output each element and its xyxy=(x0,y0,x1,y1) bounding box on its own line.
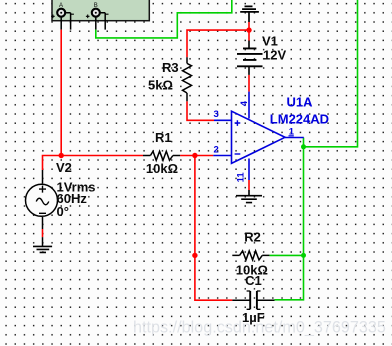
svg-text:1µF: 1µF xyxy=(242,310,265,325)
op-amp minus input mark xyxy=(235,153,241,155)
ground top (inverted, above V1) xyxy=(240,6,259,22)
op-amp plus input mark xyxy=(235,120,241,126)
scope terminal A xyxy=(51,9,74,30)
op-amp pin4 stub xyxy=(248,92,250,119)
svg-text:5kΩ: 5kΩ xyxy=(148,78,173,93)
wire feedback node down to C1 left (red) xyxy=(195,156,232,301)
svg-text:11: 11 xyxy=(236,172,247,183)
svg-text:C1: C1 xyxy=(245,273,262,288)
wire output branch to top right (green) xyxy=(304,0,358,147)
wire op-amp output down to C1 right (green) xyxy=(275,138,304,300)
ground under op-amp xyxy=(236,190,262,203)
oscilloscope XSC1 box xyxy=(52,0,149,21)
wire R3 top to V1 rail (red) xyxy=(187,30,249,57)
svg-text:12V: 12V xyxy=(263,48,286,63)
capacitor C1 xyxy=(232,291,274,309)
svg-text:R2: R2 xyxy=(244,230,261,245)
wire V1 bottom to op-amp pin4 (red) xyxy=(248,75,250,92)
wire scope B loop (green) xyxy=(96,0,232,38)
svg-text:2: 2 xyxy=(214,145,219,156)
wire R1 to op-amp inverting input (red) xyxy=(180,155,213,157)
AC source V2 xyxy=(26,170,58,246)
wire V2 top to R1 (red) xyxy=(43,156,144,171)
svg-text:LM224AD: LM224AD xyxy=(270,111,329,126)
node junction R2 left xyxy=(192,253,197,258)
svg-text:V2: V2 xyxy=(56,160,72,175)
svg-text:4: 4 xyxy=(239,100,250,106)
svg-text:0°: 0° xyxy=(57,204,69,219)
svg-text:R3: R3 xyxy=(162,60,179,75)
node junction V1 rail xyxy=(246,27,251,32)
scope terminal B xyxy=(86,9,109,30)
svg-text:V1: V1 xyxy=(262,34,278,49)
node junction R1/R2/C1 xyxy=(192,153,197,158)
op-amp pin1 output stub xyxy=(285,137,304,139)
node junction A/V2/R1 xyxy=(59,153,64,158)
wire R2 right to output net (green) xyxy=(269,254,303,256)
svg-text:10kΩ: 10kΩ xyxy=(146,161,178,176)
op-amp pin11 stub xyxy=(248,159,250,181)
svg-text:U1A: U1A xyxy=(287,95,314,110)
op-amp pin2 stub xyxy=(213,155,231,157)
resistor R1 xyxy=(143,151,180,160)
resistor R3 xyxy=(183,57,192,101)
battery V1 xyxy=(237,41,263,75)
svg-text:R1: R1 xyxy=(155,130,172,145)
node junction R2 right xyxy=(301,253,306,258)
op-amp pin3 stub xyxy=(214,119,232,121)
svg-text:B: B xyxy=(94,3,98,9)
wire ground to V1 plus (red) xyxy=(248,22,250,41)
svg-text:3: 3 xyxy=(214,109,219,120)
wire R3 bottom to op-amp non-inverting input (red) xyxy=(187,101,214,120)
node junction output branch xyxy=(301,144,306,149)
wire scope A to input node (red) xyxy=(60,30,62,156)
wire op-amp pin11 to ground (red) xyxy=(248,180,250,190)
op-amp U1A triangle xyxy=(232,111,286,163)
wire V2 bottom to ground (red) xyxy=(42,229,44,237)
ground under V2 xyxy=(33,246,52,252)
svg-text:A: A xyxy=(59,3,63,9)
resistor R2 xyxy=(232,251,269,260)
